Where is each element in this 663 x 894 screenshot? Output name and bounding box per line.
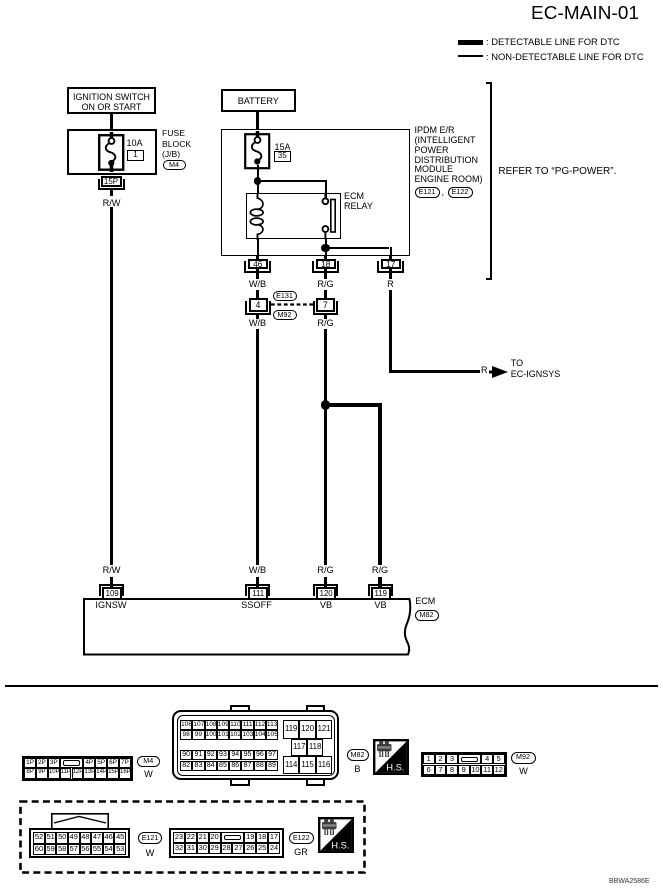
dashed connector link line — [271, 303, 315, 306]
ECM connector 119 box — [371, 587, 391, 600]
ECM connector 119 bracket — [368, 584, 393, 596]
relay label — [344, 191, 373, 211]
connector E122 oval — [448, 187, 473, 198]
connector M82 pins 106-113 — [180, 720, 192, 730]
legend non-detectable text — [486, 52, 644, 62]
wire label R under 17 — [387, 279, 394, 289]
destination text TO EC-IGNSYS — [511, 358, 561, 380]
wire branch to relay contact — [257, 180, 326, 182]
connector M82 pins 90-97 — [180, 750, 192, 760]
connector M82 outer shell — [172, 710, 339, 780]
connector E121 oval label — [138, 832, 162, 844]
connector M4 colour W — [144, 769, 153, 779]
connector E122 oval label — [289, 832, 314, 844]
wire IPDM to connector 18 — [324, 256, 328, 279]
connector E121 pins 52-45 — [33, 832, 45, 844]
connector M92 colour W — [519, 766, 528, 776]
connector E121 oval — [415, 187, 440, 198]
wire ignition switch to fuse block (R/W feed) — [110, 114, 114, 136]
connector M4 pins row 2 — [24, 768, 36, 779]
wire R down and right to EC-IGNSYS — [389, 290, 393, 373]
ECM connector 109 box — [102, 587, 122, 600]
ECM pin name VB (119) — [374, 600, 386, 610]
connector E121 pins 60-53 — [33, 844, 45, 856]
wire relay contact to connector 18 — [325, 238, 327, 256]
connector 4 box — [249, 298, 268, 312]
connector E121 keying tab — [51, 813, 109, 829]
title EC-MAIN-01 — [531, 4, 639, 25]
connector E121 colour W — [146, 848, 155, 858]
wire label W/B at ECM — [249, 565, 266, 575]
junction dot in IPDM — [254, 177, 262, 185]
wire 46 to connector 4 — [256, 290, 260, 302]
IPDM label — [415, 126, 483, 184]
ECM pin name VB (120) — [320, 600, 332, 610]
wire 7 down to junction — [324, 315, 328, 319]
connector M4 pinout outer box — [22, 756, 133, 782]
connector 7 box — [316, 298, 335, 312]
dashed harness group box — [19, 800, 366, 874]
fuse block J/B box — [67, 129, 157, 175]
connector M82 pins 114-116 — [283, 756, 299, 775]
connector 15P bracket — [98, 179, 125, 191]
connector 4 bracket — [245, 301, 270, 315]
connector M82 pins 119-121 — [283, 720, 299, 739]
wire label R/W (top) — [103, 198, 121, 208]
wire branch junction to 119 — [325, 403, 380, 407]
H.S. hand symbol (M82) — [373, 739, 409, 775]
connector M82 bottom tabs — [230, 778, 251, 786]
connector E122 colour GR — [294, 847, 308, 857]
connector 18 box — [316, 259, 336, 269]
wire label W/B under 46 — [249, 279, 266, 289]
connector E122 pins 23-17 — [173, 832, 185, 843]
connector 17 bracket — [377, 261, 405, 273]
junction node dot R/G — [321, 400, 330, 409]
relay coil — [246, 193, 276, 240]
wire label R/G at ECM 120 — [317, 565, 333, 575]
junction dot above connector 18 — [321, 244, 330, 253]
drawing code BBWA2586E — [609, 878, 650, 886]
connector E122 pinout outer box — [169, 828, 285, 859]
connector E131 oval — [273, 291, 297, 301]
wire label R/G under 18 — [317, 279, 333, 289]
connector M82 pins 98-105 — [180, 730, 192, 740]
connector 7 bracket — [313, 301, 338, 315]
wire stub into ECM connector 119 — [378, 577, 382, 587]
fuse rating 15A — [275, 143, 291, 153]
connector 46 box — [248, 259, 268, 269]
wire label R/G at ECM 119 — [372, 565, 388, 575]
connector M92 oval (inline) — [273, 310, 297, 320]
connector M82 top tabs — [230, 705, 251, 713]
legend detectable text — [486, 37, 620, 47]
H.S. hand symbol (E121/E122) — [318, 817, 354, 853]
connector M4 oval label — [137, 756, 161, 768]
IPDM E/R box — [221, 129, 410, 256]
ECM connector 111 box — [248, 587, 268, 600]
wire label R before arrow — [481, 366, 488, 376]
connector M92 pins row 1 — [423, 754, 435, 764]
connector M4 pins row 1 — [24, 758, 36, 769]
wire R/W long run to ECM — [110, 207, 114, 565]
connector M82 inner shell — [177, 715, 336, 776]
svg-text:H.S.: H.S. — [386, 762, 404, 773]
fuse block label — [162, 128, 191, 160]
refer bracket — [486, 82, 492, 280]
connector 46 bracket — [244, 261, 272, 273]
fuse number 1 box — [127, 150, 144, 161]
arrow to EC-IGNSYS — [489, 366, 509, 378]
ECM label — [415, 597, 435, 607]
wire stub into ECM connector 120 — [324, 577, 328, 587]
wire label W/B under 4 — [249, 318, 266, 328]
ignition switch box — [67, 87, 156, 114]
wire IPDM to connector 17 — [389, 256, 393, 279]
connector M4 oval — [163, 160, 186, 170]
wire fuse 35 to relay coil — [257, 165, 259, 193]
refer text — [498, 166, 616, 177]
wire 4 to ECM 111 — [256, 315, 260, 319]
connector M82 pins 82-89 — [180, 761, 192, 771]
ECM connector 120 box — [316, 587, 336, 600]
ECM connector 109 bracket — [99, 584, 124, 596]
ECM connector 111 bracket — [245, 584, 270, 596]
connector M92 pins row 2 — [423, 765, 435, 775]
fuse 1 10A symbol — [96, 132, 126, 172]
connector M82 oval label — [347, 749, 369, 761]
connector M92 oval label — [511, 752, 536, 764]
wire label R/G under 7 — [317, 318, 333, 328]
connector 17 box — [381, 259, 401, 269]
ECM connector 120 bracket — [313, 584, 338, 596]
wire IPDM to connector 46 — [256, 256, 260, 279]
svg-text:H.S.: H.S. — [331, 840, 349, 851]
wire branch to connector 17 — [325, 247, 389, 249]
legend non-detectable line sample — [458, 55, 483, 57]
wire relay coil to connector 46 — [257, 238, 259, 256]
fuse rating 10A — [127, 139, 143, 149]
wire battery to IPDM — [256, 112, 260, 130]
wire stub into ECM connector 111 — [256, 577, 260, 587]
separator line — [5, 685, 658, 687]
legend detectable line sample — [458, 40, 483, 46]
wire 18 to connector 7 — [324, 290, 328, 302]
comma — [442, 188, 445, 198]
ECM box with torn edge — [82, 598, 414, 658]
ECM relay box — [246, 193, 341, 239]
battery box — [221, 89, 296, 112]
relay contact — [316, 193, 342, 238]
wire label R/W (at ECM) — [103, 565, 121, 575]
connector 15P box — [101, 176, 122, 188]
wire stub below 15P — [110, 190, 114, 196]
wire R/W stub into ECM connector 109 — [110, 577, 114, 587]
ECM pin name SSOFF — [241, 600, 272, 610]
connector M92 pinout outer box — [421, 752, 508, 777]
connector M82 pins 117-118 — [291, 739, 307, 756]
connector E121 pinout outer box — [29, 828, 131, 858]
connector 18 bracket — [312, 261, 340, 273]
connector E122 pins 32-24 — [173, 843, 185, 854]
ECM pin name IGNSW — [95, 600, 126, 610]
fuse number 35 box — [274, 151, 292, 162]
connector M82 colour B — [354, 764, 360, 774]
fuse 35 15A symbol — [242, 131, 272, 171]
connector M82 oval — [415, 610, 439, 622]
